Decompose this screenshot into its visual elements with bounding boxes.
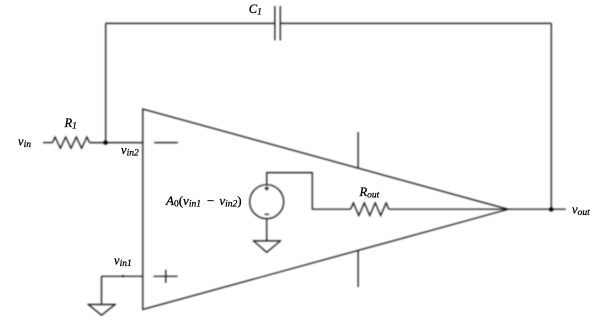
node vin1 tiny dot xyxy=(122,275,124,277)
node vout junction dot xyxy=(549,207,553,211)
minus sign inverting input xyxy=(154,142,178,144)
wire vin1 horizontal xyxy=(102,275,143,277)
svg-text:vin: vin xyxy=(18,135,31,151)
wire R1 to op-amp xyxy=(90,142,143,144)
svg-text:A0(vin1−vin2): A0(vin1−vin2) xyxy=(165,193,242,210)
source plus mark xyxy=(265,186,269,190)
wire source bottom to ground xyxy=(266,219,268,241)
wire Rout to output xyxy=(389,208,566,210)
wire input from vin xyxy=(43,142,52,144)
node vin2 junction dot xyxy=(103,141,107,145)
wire feedback right vertical xyxy=(550,23,552,209)
svg-text:C1: C1 xyxy=(249,2,262,18)
svg-text:vout: vout xyxy=(572,203,590,219)
wire feedback top-right horizontal xyxy=(280,22,551,24)
svg-text:vin1: vin1 xyxy=(114,254,132,270)
ground (vin1) xyxy=(88,305,115,316)
source minus mark xyxy=(265,213,269,215)
resistor R1 xyxy=(52,137,89,148)
wire source top to Rout xyxy=(267,173,351,210)
svg-text:R1: R1 xyxy=(64,116,77,132)
resistor Rout xyxy=(351,203,389,216)
wire feedback left vertical xyxy=(105,23,107,142)
wire vin1 vertical to ground xyxy=(101,276,103,304)
wire feedback top-left horizontal xyxy=(106,22,275,24)
supply stub bottom xyxy=(357,250,359,287)
ground (source) xyxy=(254,241,281,252)
svg-text:Rout: Rout xyxy=(359,185,380,201)
plus sign non-inverting input xyxy=(154,270,178,283)
supply stub top xyxy=(357,132,359,168)
op-amp U1 triangle xyxy=(143,109,508,310)
svg-text:vin2: vin2 xyxy=(121,143,139,159)
capacitor C1 xyxy=(275,6,280,40)
dependent source U2 circle xyxy=(250,185,284,219)
